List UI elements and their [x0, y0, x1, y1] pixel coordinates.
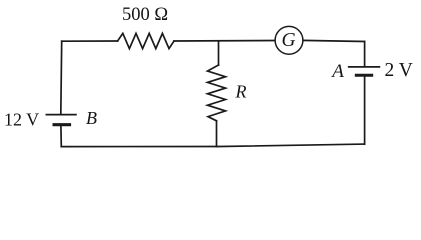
svg-text:2 V: 2 V: [385, 60, 413, 81]
svg-text:12 V: 12 V: [4, 110, 39, 130]
svg-text:G: G: [282, 30, 296, 51]
svg-text:A: A: [330, 61, 344, 82]
svg-text:500 Ω: 500 Ω: [122, 5, 168, 25]
svg-text:R: R: [235, 81, 247, 101]
svg-text:B: B: [86, 108, 97, 128]
